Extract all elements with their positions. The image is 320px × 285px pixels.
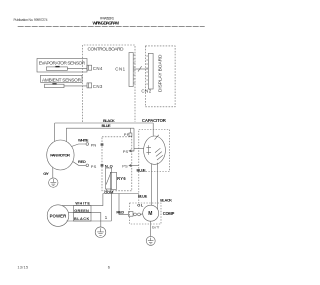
wire fan motor ground lead G/Y xyxy=(52,167,54,178)
wire compressor ground lead G/Y xyxy=(150,221,152,236)
header publication text xyxy=(14,18,48,22)
svg-text:BLACK: BLACK xyxy=(160,198,172,203)
wire blue drop to capacitor xyxy=(132,128,134,151)
connector CN4 xyxy=(87,65,92,70)
relay RY6 contact N.O xyxy=(105,163,113,168)
svg-text:DISPLAY BOARD: DISPLAY BOARD xyxy=(158,54,164,92)
svg-text:PS: PS xyxy=(123,149,129,154)
svg-text:EVAPORATOR SENSOR: EVAPORATOR SENSOR xyxy=(39,61,86,66)
wire power green xyxy=(69,213,101,228)
svg-text:G/Y: G/Y xyxy=(43,171,49,176)
svg-text:BLACK: BLACK xyxy=(74,217,89,221)
svg-text:PS: PS xyxy=(91,164,97,169)
wire dashed drop to compressor enclosure xyxy=(138,172,140,204)
svg-text:CN1: CN1 xyxy=(115,66,125,71)
footer date code xyxy=(18,265,29,269)
capacitor body xyxy=(144,136,166,164)
power cord xyxy=(47,205,69,227)
svg-text:WHITE: WHITE xyxy=(75,201,90,205)
wire black drop to fan motor xyxy=(54,123,56,142)
svg-text:CN2: CN2 xyxy=(141,88,151,93)
ground power green xyxy=(95,227,106,238)
svg-text:N.O: N.O xyxy=(105,163,113,168)
ambient sensor box xyxy=(41,75,83,82)
capacitor tick marks xyxy=(155,148,160,152)
title WIRING DIAGRAM xyxy=(93,21,120,26)
wire power black xyxy=(67,220,112,222)
svg-text:COMP: COMP xyxy=(163,211,175,216)
terminal PS upper right xyxy=(123,149,129,154)
wire common line to black terminal xyxy=(110,194,112,222)
capacitor label xyxy=(142,118,167,123)
svg-text:CN4: CN4 xyxy=(93,66,103,71)
svg-text:FAN MOTOR: FAN MOTOR xyxy=(50,153,70,158)
compressor motor M xyxy=(143,205,159,221)
wire CN1 to display board xyxy=(133,68,148,70)
svg-text:CN3: CN3 xyxy=(93,84,103,89)
wire relay to overload red xyxy=(119,194,128,215)
evaporator sensor box xyxy=(37,59,87,73)
footer page number xyxy=(108,264,110,269)
wire capacitor to compressor black xyxy=(157,163,159,210)
header model number xyxy=(100,17,114,21)
wire red fan motor lead xyxy=(73,162,86,166)
svg-text:BLUE: BLUE xyxy=(102,123,112,128)
display board box xyxy=(145,46,175,107)
svg-text:M: M xyxy=(148,211,152,217)
connector CN3 xyxy=(87,83,92,88)
wire evaporator sensor to CN4 xyxy=(67,68,87,70)
wire relay contact to common line xyxy=(106,189,108,194)
wire power white xyxy=(62,194,103,206)
ambient sensor bulb xyxy=(45,84,65,87)
svg-text:PS: PS xyxy=(122,163,128,168)
capacitor dashed enclosure xyxy=(139,130,170,172)
svg-text:1: 1 xyxy=(105,215,108,221)
svg-text:BLUE: BLUE xyxy=(137,168,147,173)
svg-text:RED: RED xyxy=(116,209,124,214)
svg-text:G/Y: G/Y xyxy=(152,225,160,230)
svg-text:RY6: RY6 xyxy=(117,176,126,181)
svg-text:OL: OL xyxy=(137,203,144,208)
header rule xyxy=(18,26,205,28)
relay board section box xyxy=(102,137,132,191)
control board box xyxy=(83,45,136,122)
wire to capacitor left terminal xyxy=(134,148,144,150)
display board connector xyxy=(148,53,153,89)
svg-text:AMBIENT SENSOR: AMBIENT SENSOR xyxy=(42,78,82,83)
wire blue drop to fan motor xyxy=(65,128,67,142)
connector CN1 xyxy=(129,53,133,87)
wire relay coil to common line xyxy=(110,189,112,193)
compressor dashed enclosure xyxy=(130,203,161,224)
relay RY6 coil xyxy=(110,172,116,189)
svg-text:POWER: POWER xyxy=(50,214,67,219)
ground fan motor xyxy=(49,178,58,187)
wire common line xyxy=(103,193,139,195)
terminal PS lower right xyxy=(122,163,128,168)
wire ambient sensor to CN3 xyxy=(64,85,87,87)
svg-text:CONTROL BOARD: CONTROL BOARD xyxy=(88,46,125,51)
terminal PF square xyxy=(124,132,130,137)
wire BLACK horizontal xyxy=(55,122,154,124)
evaporator sensor bulb xyxy=(46,67,67,70)
svg-text:Publication No. 99997274: Publication No. 99997274 xyxy=(14,18,48,22)
svg-text:PN: PN xyxy=(91,143,97,148)
ground compressor xyxy=(146,236,155,245)
svg-text:6: 6 xyxy=(108,264,110,269)
terminal pin PS on box edge xyxy=(101,164,103,166)
wire black drop into capacitor top xyxy=(152,123,154,136)
wire BLUE horizontal xyxy=(66,127,134,129)
overload protector xyxy=(128,212,133,217)
wire capacitor to compressor blue xyxy=(151,164,153,206)
svg-text:WHITE: WHITE xyxy=(78,137,89,142)
svg-text:13/15: 13/15 xyxy=(18,265,29,269)
capacitor plates xyxy=(148,145,150,155)
svg-text:RED: RED xyxy=(78,159,86,164)
svg-text:CAPACITOR: CAPACITOR xyxy=(142,118,167,123)
svg-text:BLUE: BLUE xyxy=(138,194,148,199)
terminal pin PN on box edge xyxy=(101,144,103,146)
wire white fan motor lead xyxy=(71,144,85,147)
svg-text:WIRING DIAGRAM: WIRING DIAGRAM xyxy=(93,21,120,26)
fan motor FM xyxy=(47,140,74,170)
